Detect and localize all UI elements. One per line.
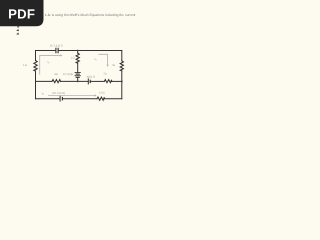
wire: right edge bottom — [121, 71, 123, 99]
svg-text:1 Ω: 1 Ω — [71, 57, 75, 60]
svg-text:(W. 5 Ω O): (W. 5 Ω O) — [52, 92, 65, 95]
wire: bottom wire seg2 — [63, 98, 97, 100]
svg-text:W. 5.8 Ω O: W. 5.8 Ω O — [50, 44, 63, 47]
wire: top wire left segment — [36, 50, 56, 52]
battery V-mid (10V) — [75, 72, 80, 74]
resistor R-mid (1ohm) — [76, 53, 79, 63]
wire: middle branch top — [77, 51, 79, 54]
svg-text:7Ω: 7Ω — [103, 73, 106, 76]
battery V1 (top wire) — [55, 48, 57, 52]
svg-text:6.5Ω: 6.5Ω — [99, 91, 105, 94]
mesh loop i2 indicator — [99, 54, 108, 65]
battery V-bottom (5V) — [59, 96, 61, 101]
wire: middle wire seg3 — [91, 80, 105, 82]
svg-text:1 Ω: 1 Ω — [23, 64, 27, 67]
mesh loop i3 indicator — [48, 95, 95, 97]
resistor R-left (3ohm) — [34, 61, 37, 72]
page background — [0, 0, 149, 198]
wire: bottom wire seg3 — [104, 98, 122, 100]
wire: middle wire seg1 — [36, 80, 53, 82]
list marks below badge — [17, 26, 19, 29]
resistor R-mid-wire-left (4ohm) — [52, 80, 61, 83]
svg-text:4Ω: 4Ω — [54, 73, 57, 76]
battery V-mid-wire — [87, 79, 89, 84]
svg-text:PDF: PDF — [8, 7, 35, 22]
wire: top wire right segment — [59, 50, 122, 52]
svg-text:7Ω: 7Ω — [112, 64, 115, 67]
wire: left edge top — [35, 51, 37, 61]
resistor R-mid-wire-right (7ohm) — [104, 80, 111, 83]
wire: left edge bottom — [35, 71, 37, 99]
wire: right edge top — [121, 51, 123, 61]
mesh loop i1 indicator — [40, 55, 61, 74]
svg-text:4Ω(1.5): 4Ω(1.5) — [87, 76, 96, 79]
resistor R-bottom (6.5ohm) — [97, 97, 104, 100]
wire: middle wire seg4 — [112, 80, 122, 82]
PDF badge — [0, 0, 44, 26]
svg-text:t. A. is using Kirchhoff's Mes: t. A. is using Kirchhoff's Mesh Equation… — [45, 13, 135, 17]
wire: middle branch bottom — [77, 78, 79, 82]
svg-text:10 V(1)E: 10 V(1)E — [63, 73, 74, 76]
wire: middle branch mid — [77, 63, 79, 72]
node: junction middle wire right — [121, 81, 123, 83]
node: junction bottom of middle branch — [77, 81, 79, 83]
wire: bottom wire seg1 — [36, 98, 60, 100]
wire: middle wire seg2 — [61, 80, 89, 82]
resistor R-right (7ohm) — [120, 61, 123, 71]
node: junction top of middle branch — [77, 50, 79, 52]
